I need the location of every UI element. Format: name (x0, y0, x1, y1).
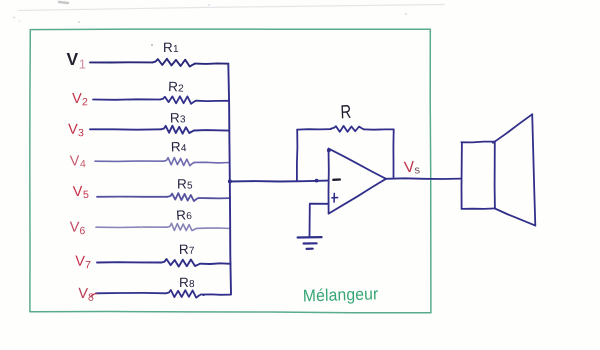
wire R5 to bus (199, 197, 230, 199)
wire R7 to bus (200, 262, 231, 265)
bus node (summing junction rail) (228, 64, 231, 294)
label V5 (73, 184, 90, 202)
svg-text:8: 8 (88, 291, 95, 303)
wire bus to op-amp inverting input (230, 180, 329, 183)
svg-text:V: V (68, 122, 78, 138)
label R1 (163, 40, 179, 55)
label R (feedback) (340, 101, 352, 123)
label V6 (69, 220, 85, 238)
junction tick at bus output (228, 179, 232, 183)
svg-text:V: V (73, 184, 84, 200)
wire V5 to R5 (97, 196, 168, 198)
svg-text:R: R (170, 110, 180, 125)
svg-text:2: 2 (82, 96, 88, 108)
resistor R1 (153, 59, 196, 67)
resistor R7 (162, 259, 201, 267)
wire op-amp output to speaker (386, 177, 461, 180)
wire non-inverting input to ground (310, 204, 329, 237)
resistor R2 (160, 96, 196, 104)
label Vs (403, 158, 421, 177)
svg-text:3: 3 (78, 127, 84, 139)
R8 trailing ink dot (203, 294, 205, 296)
wire feedback right vertical (392, 129, 394, 177)
svg-text:8: 8 (189, 279, 195, 290)
wire feedback top-right segment (364, 128, 394, 130)
svg-text:R: R (171, 139, 181, 154)
label V8 (78, 286, 95, 304)
label R7 (179, 242, 195, 257)
speaker LS1 (461, 114, 535, 225)
svg-text:6: 6 (186, 211, 193, 222)
svg-text:V: V (72, 91, 82, 107)
svg-text:V: V (70, 153, 81, 169)
wire V2 to R2 (93, 98, 160, 101)
label V3 (68, 122, 84, 139)
feedback resistor R (331, 126, 364, 132)
svg-text:R: R (168, 79, 179, 94)
wire V3 to R3 (90, 128, 161, 130)
svg-text:V: V (69, 220, 79, 236)
label R5 (177, 177, 193, 192)
label R6 (176, 207, 193, 223)
label R4 (171, 139, 187, 154)
wire R3 to bus (194, 129, 229, 132)
wire feedback top-left segment (297, 128, 331, 131)
label Melangeur (303, 285, 379, 306)
wire V4 to R4 (95, 160, 164, 162)
label V4 (70, 153, 87, 171)
svg-text:V: V (67, 49, 79, 69)
svg-text:R: R (179, 242, 189, 257)
svg-text:6: 6 (79, 225, 85, 237)
label V7 (75, 254, 92, 272)
svg-text:7: 7 (189, 246, 195, 257)
label R2 (168, 79, 185, 95)
op-amp top-left corner dot (327, 149, 331, 153)
svg-text:2: 2 (178, 83, 184, 94)
wire R8 to bus (201, 293, 231, 295)
op-amp non-inverting pin marker (plus) (332, 193, 338, 202)
svg-text:Mélangeur: Mélangeur (303, 285, 379, 306)
svg-text:5: 5 (83, 189, 89, 201)
svg-text:4: 4 (80, 158, 86, 170)
junction dot at inverting input node (315, 179, 319, 183)
svg-text:V: V (75, 254, 86, 270)
resistor R3 (161, 126, 194, 134)
op-amp inverting pin marker (minus) (333, 178, 340, 181)
svg-text:R: R (179, 275, 189, 290)
svg-text:s: s (414, 164, 421, 176)
resistor R5 (168, 193, 199, 201)
wire R6 to bus (197, 227, 231, 230)
svg-text:R: R (163, 40, 173, 55)
label R8 (179, 275, 195, 290)
svg-text:1: 1 (79, 57, 86, 72)
svg-text:1: 1 (173, 44, 179, 55)
op-amp U1 (329, 149, 387, 214)
resistor R6 (167, 223, 197, 230)
svg-text:5: 5 (187, 181, 193, 192)
svg-text:R: R (177, 177, 187, 192)
wire V8 to R8 (96, 292, 166, 294)
label R3 (170, 110, 186, 125)
resistor R8 (166, 290, 201, 298)
label V1 (67, 49, 86, 72)
svg-text:R: R (340, 101, 352, 123)
wire V6 to R6 (96, 226, 167, 228)
resistor R4 (164, 158, 195, 166)
wire V7 to R7 (97, 261, 162, 263)
label V8 tail stroke (91, 294, 97, 297)
ground (298, 237, 322, 249)
svg-text:4: 4 (181, 143, 187, 154)
label V2 (72, 91, 88, 108)
mixer block box (30, 29, 431, 313)
wire feedback left vertical (296, 130, 299, 181)
svg-text:3: 3 (180, 114, 186, 125)
wire R4 to bus (195, 161, 230, 164)
wire R2 to bus (196, 100, 229, 102)
wire V1 to R1 (90, 61, 153, 63)
svg-text:7: 7 (85, 259, 91, 271)
svg-text:R: R (176, 207, 187, 223)
wire R1 to bus (195, 62, 228, 65)
